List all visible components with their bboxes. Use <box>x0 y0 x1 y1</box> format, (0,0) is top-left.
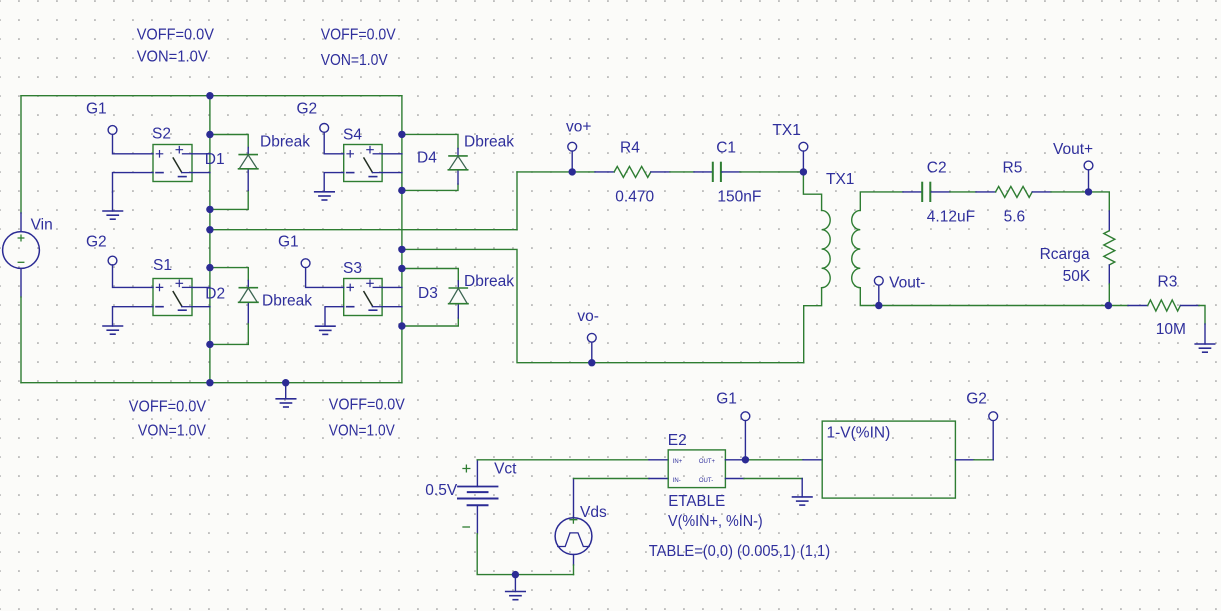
svg-text:VON=1.0V: VON=1.0V <box>137 48 209 65</box>
wire Rcarga node to R3 <box>1108 305 1128 307</box>
junction D2 top <box>206 264 213 271</box>
wire TX1 stem <box>802 151 804 172</box>
wire G2 to S1 control+ <box>113 265 154 287</box>
ground (S4 control) <box>315 192 335 200</box>
wire vo- stem <box>591 342 593 363</box>
junction Vout+ <box>1085 188 1092 195</box>
wire G2 to S4 control+ <box>324 132 344 154</box>
svg-text:VOFF=0.0V: VOFF=0.0V <box>137 27 215 44</box>
wire C1 to TX1 node <box>722 171 740 173</box>
node G2 terminal (S1 control) <box>108 256 117 265</box>
switch S4 <box>344 145 382 182</box>
junction Vout- <box>875 302 882 309</box>
op-block 1-V(%IN) <box>822 421 955 498</box>
svg-text:S1: S1 <box>153 257 172 274</box>
resistor R3 <box>1148 300 1181 311</box>
svg-text:Vin: Vin <box>31 217 53 234</box>
svg-text:R3: R3 <box>1158 273 1178 290</box>
svg-text:VON=1.0V: VON=1.0V <box>329 423 396 440</box>
junction D1 bottom <box>206 206 213 213</box>
svg-text:VOFF=0.0V: VOFF=0.0V <box>329 397 406 414</box>
node G2 terminal (S4 control) <box>320 124 329 133</box>
wire mid output wire (left leg midpoint to vo+ riser) <box>210 229 517 231</box>
svg-text:Dbreak: Dbreak <box>464 273 514 290</box>
resistor Rcarga <box>1104 231 1115 265</box>
svg-text:50K: 50K <box>1063 268 1091 285</box>
wire D2 loop <box>210 268 248 345</box>
wire G1 to S3 control+ <box>306 268 344 288</box>
voltage source Vin <box>3 232 40 269</box>
wire battery bottom <box>476 505 478 534</box>
wire Vin bottom lead <box>20 268 22 297</box>
junction vo- feed <box>398 246 405 253</box>
svg-text:G1: G1 <box>278 233 299 250</box>
svg-text:G1: G1 <box>716 390 737 407</box>
svg-text:IN+: IN+ <box>673 459 683 465</box>
svg-text:G2: G2 <box>86 233 107 250</box>
wire S3 switch pins to right bus <box>382 287 402 306</box>
wire G1 node to 1-V block <box>745 459 803 461</box>
svg-text:Dbreak: Dbreak <box>260 134 310 151</box>
wire R3 to ground <box>1180 305 1199 307</box>
diode D3 <box>449 288 468 304</box>
node vo- terminal <box>587 333 596 342</box>
svg-text:vo+: vo+ <box>566 118 591 135</box>
svg-text:Vct: Vct <box>494 460 517 477</box>
ground (S1 control) <box>103 326 123 334</box>
svg-text:4.12uF: 4.12uF <box>927 209 975 226</box>
wire S2 switch pins to left bus <box>192 154 210 173</box>
svg-text:Rcarga: Rcarga <box>1040 246 1090 263</box>
wire bottom node to Vds <box>515 574 573 576</box>
wire primary bottom lead <box>804 288 822 363</box>
switch S2 <box>153 145 192 182</box>
voltage source Vds <box>555 516 592 554</box>
wire Vout- stem <box>878 285 880 305</box>
wire Vout+ node to Rcarga <box>1089 192 1110 211</box>
svg-text:G2: G2 <box>297 100 318 117</box>
ground (R3) <box>1195 344 1215 352</box>
diode D1 <box>239 155 258 169</box>
ground (S2 control) <box>103 211 123 219</box>
wire bottom bus (Vin- rail) <box>21 382 402 384</box>
resistor R5 <box>996 186 1033 197</box>
junction bottom bus / left bus <box>206 379 213 386</box>
ground (E2 OUT-) <box>793 497 813 505</box>
wire left bridge bus <box>209 96 211 383</box>
svg-text:Vout+: Vout+ <box>1053 141 1093 158</box>
junction Rcarga / R3 <box>1105 302 1112 309</box>
wire E2 OUT+ to G1 node <box>725 459 745 461</box>
svg-text:OUT-: OUT- <box>699 478 713 484</box>
wire top bus (Vin+ rail) <box>21 95 402 97</box>
wire S3 control- to ground <box>325 307 344 327</box>
wire G1 stem <box>744 421 746 460</box>
svg-text:TABLE=(0,0) (0.005,1) (1,1): TABLE=(0,0) (0.005,1) (1,1) <box>649 543 830 560</box>
wire G1 to S2 control+ <box>113 134 154 153</box>
node G1 terminal (control) <box>741 412 750 421</box>
transformer TX1 secondary winding <box>852 210 861 287</box>
svg-text:E2: E2 <box>668 432 687 449</box>
wire battery top to E2 IN+ <box>476 461 478 487</box>
svg-text:VON=1.0V: VON=1.0V <box>321 52 389 69</box>
svg-text:D1: D1 <box>205 151 225 168</box>
switch S3 <box>344 279 382 316</box>
wire C2 to R5 <box>931 191 950 193</box>
op-block E2 ETABLE <box>668 450 725 488</box>
wire R4 to C1 <box>651 171 670 173</box>
junction G1 / OUT+ <box>742 456 749 463</box>
svg-text:VOFF=0.0V: VOFF=0.0V <box>129 398 207 415</box>
wire bottom bus ground stub <box>285 383 287 399</box>
resistor R4 <box>614 166 651 177</box>
diode D4 <box>448 156 467 170</box>
wire Vds bottom <box>573 555 575 566</box>
svg-text:R5: R5 <box>1003 159 1023 176</box>
svg-text:OUT+: OUT+ <box>699 459 716 465</box>
svg-text:5.6: 5.6 <box>1004 209 1026 226</box>
switch S1 <box>153 279 192 316</box>
junction vo- <box>588 359 595 366</box>
junction D4 top <box>398 131 405 138</box>
wire vo- feed (right leg midpoint) <box>402 249 804 362</box>
node G1 terminal (S3 control) <box>301 259 310 268</box>
wire S1 control- to ground <box>113 307 154 326</box>
junction vo+ <box>569 168 576 175</box>
junction D3 bottom <box>398 322 405 329</box>
node vo+ terminal <box>568 142 577 151</box>
svg-text:VOFF=0.0V: VOFF=0.0V <box>321 27 397 44</box>
junction D3 top <box>398 265 405 272</box>
wire Vin top lead <box>20 96 22 213</box>
svg-text:Dbreak: Dbreak <box>262 292 312 309</box>
wire Rcarga bottom lead <box>1108 265 1110 284</box>
wire R5 to Vout+ node <box>1032 191 1051 193</box>
svg-text:G2: G2 <box>966 390 987 407</box>
node Vout+ terminal <box>1084 161 1093 170</box>
svg-text:S4: S4 <box>343 126 362 143</box>
svg-text:Vout-: Vout- <box>889 274 925 291</box>
wire E2 OUT- to ground <box>725 478 744 480</box>
svg-text:V(%IN+, %IN-): V(%IN+, %IN-) <box>668 513 763 530</box>
svg-text:vo-: vo- <box>577 308 599 325</box>
junction control ground <box>512 571 519 578</box>
junction D2 bottom <box>206 341 213 348</box>
junction top bus / left bus <box>206 92 213 99</box>
svg-text:10M: 10M <box>1156 321 1186 338</box>
svg-text:S2: S2 <box>152 125 171 142</box>
svg-text:D4: D4 <box>417 150 437 167</box>
svg-text:G1: G1 <box>86 100 107 117</box>
junction mid output <box>206 226 213 233</box>
wire right bridge bus <box>401 96 403 383</box>
wire vo+ row segment 1 <box>517 171 595 173</box>
wire Vds top to E2 IN- <box>573 479 575 518</box>
wire Vout+ stem <box>1088 170 1090 192</box>
ground (bottom bus) <box>276 399 296 407</box>
svg-text:ETABLE: ETABLE <box>668 493 725 510</box>
wire S2 control- to ground <box>113 173 154 192</box>
svg-text:D2: D2 <box>205 286 225 303</box>
svg-text:TX1: TX1 <box>772 122 800 139</box>
svg-text:0.470: 0.470 <box>615 189 654 206</box>
svg-text:VON=1.0V: VON=1.0V <box>138 423 207 440</box>
wire D1 loop <box>210 135 248 210</box>
capacitor C1 <box>713 163 721 181</box>
junction D4 bottom <box>398 187 405 194</box>
wire vo+ stem <box>571 151 573 172</box>
wire block output to G2 <box>955 459 974 461</box>
svg-text:TX1: TX1 <box>826 171 854 188</box>
wire secondary top lead <box>860 192 903 211</box>
svg-text:150nF: 150nF <box>717 189 761 206</box>
wire D3 loop <box>402 269 458 327</box>
diode D2 <box>239 288 258 303</box>
svg-text:C2: C2 <box>927 159 947 176</box>
svg-text:Dbreak: Dbreak <box>464 134 514 151</box>
wire vo+ riser <box>516 172 518 230</box>
wire primary top lead <box>803 172 821 211</box>
transformer TX1 primary winding <box>822 210 831 287</box>
wire bottom ground stub <box>514 575 516 592</box>
junction bottom bus ground <box>282 379 289 386</box>
svg-text:S3: S3 <box>343 260 362 277</box>
node G2 terminal (control) <box>989 412 998 421</box>
ground (S3 control) <box>316 326 336 334</box>
node TX1 terminal <box>799 142 808 151</box>
svg-text:1-V(%IN): 1-V(%IN) <box>827 425 891 442</box>
wire S1 switch pins to left bus <box>192 287 210 306</box>
ground (control return) <box>506 592 526 600</box>
svg-text:Vds: Vds <box>580 504 607 521</box>
svg-text:R4: R4 <box>620 139 640 156</box>
node Vout- terminal <box>874 276 883 285</box>
svg-text:0.5V: 0.5V <box>425 482 458 499</box>
wire S4 switch pins to right bus <box>382 154 402 173</box>
junction D1 top <box>206 131 213 138</box>
junction TX1 <box>800 168 807 175</box>
node G1 terminal (S2 control) <box>108 126 117 135</box>
wire secondary bottom lead <box>860 288 1108 306</box>
wire D4 loop <box>402 134 458 190</box>
wire S4 control- to ground <box>324 173 344 192</box>
capacitor C2 <box>922 183 930 201</box>
svg-text:D3: D3 <box>418 285 438 302</box>
svg-text:IN-: IN- <box>673 478 681 484</box>
svg-text:C1: C1 <box>716 139 736 156</box>
voltage source Vct battery <box>458 465 498 527</box>
